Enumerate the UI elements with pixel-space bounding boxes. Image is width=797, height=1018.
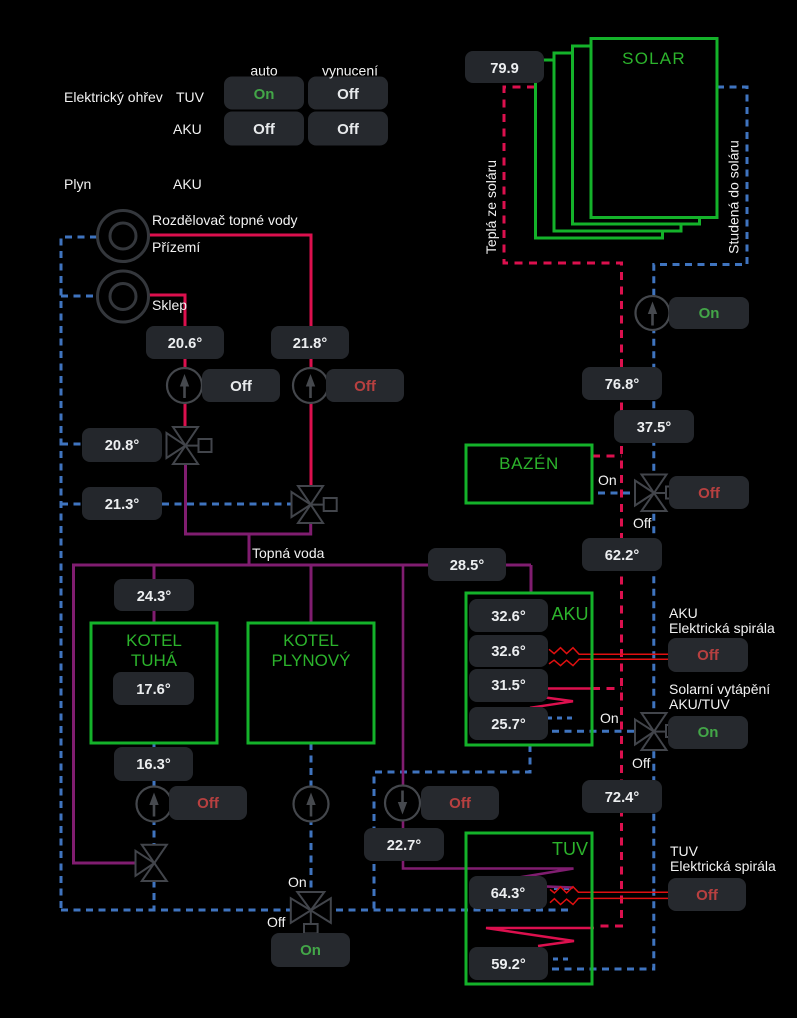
wire: red dashed bazen branch — [592, 455, 622, 458]
wire: crimson heating Sklep circuit — [147, 295, 185, 326]
svg-text:Off: Off — [697, 647, 720, 664]
wire: blue drop kotel tuha to bus — [153, 743, 156, 910]
svg-text:Off: Off — [267, 914, 286, 930]
svg-text:31.5°: 31.5° — [491, 678, 526, 694]
wire: blue dotted stub beside 64.3 sensor — [554, 887, 570, 890]
sensor box 64.3 — [469, 876, 547, 909]
wire: blue cold-return network left vertical — [61, 237, 97, 910]
svg-text:PLYNOVÝ: PLYNOVÝ — [271, 651, 350, 670]
button solar pump On — [669, 297, 749, 329]
wire: crimson heating Prizemi circuit — [147, 235, 311, 326]
wire: crimson 21.8 box to pump to valve V2 — [310, 359, 313, 486]
valve V5 (kotel tuha return) — [136, 845, 167, 881]
button solarni vytapeni On — [668, 716, 748, 749]
distributor circle Sklep — [98, 271, 149, 322]
valve V6 (boiler bypass on bus) — [291, 892, 331, 934]
svg-text:Rozdělovač topné vody: Rozdělovač topné vody — [152, 212, 298, 228]
sensor box 20.6 — [146, 326, 224, 359]
svg-text:On: On — [254, 86, 275, 103]
wire: blue branch to 20.8 sensor — [61, 443, 84, 446]
svg-text:On: On — [699, 305, 720, 322]
wire: crimson solar coil inside AKU tank — [480, 689, 592, 708]
svg-text:Off: Off — [698, 485, 721, 502]
sensor box 59.2 — [469, 947, 548, 980]
AKU tank box — [466, 593, 592, 745]
kotel tuha box — [91, 623, 217, 743]
svg-text:On: On — [600, 710, 619, 726]
svg-text:Plyn: Plyn — [64, 176, 91, 192]
wire: blue drop kotel plynovy to bus — [310, 743, 313, 905]
svg-text:37.5°: 37.5° — [637, 420, 672, 436]
sensor box 32.6 top — [469, 599, 548, 632]
wire: purple drop to kotel tuha — [153, 565, 156, 623]
svg-text:Teplá ze soláru: Teplá ze soláru — [483, 160, 499, 254]
svg-text:20.8°: 20.8° — [105, 438, 140, 454]
svg-text:Off: Off — [354, 378, 377, 395]
wire: blue branch to Sklep circle — [61, 295, 97, 298]
valve V2 (mixing, Prizemi) — [292, 486, 337, 523]
sensor box 24.3 — [114, 579, 194, 611]
svg-text:AKU: AKU — [173, 176, 202, 192]
sensor box 21.3 — [82, 487, 162, 520]
button kotel tuha pump Off — [169, 786, 247, 820]
sensor box 72.4 — [582, 780, 662, 813]
svg-text:76.8°: 76.8° — [605, 377, 640, 393]
bazen box — [466, 445, 592, 503]
sensor box 76.8 — [582, 367, 662, 400]
wire: purple drop 28.5 to AKU top — [530, 565, 533, 593]
svg-text:On: On — [300, 942, 321, 959]
wire: purple topna voda bus — [72, 564, 531, 567]
wire: blue AKU bottom return to bus — [374, 745, 530, 910]
svg-text:Studená do soláru: Studená do soláru — [726, 140, 742, 254]
svg-text:59.2°: 59.2° — [491, 957, 526, 973]
wire: blue dotted stub inside TUV tank — [553, 958, 573, 961]
wire: blue branch 21.3 to mixing valve V2 — [61, 503, 300, 506]
TUV tank box — [466, 833, 592, 984]
button pump P2 Off — [326, 369, 404, 402]
svg-text:TUV: TUV — [176, 89, 205, 105]
svg-text:Elektrická spirála: Elektrická spirála — [669, 620, 775, 636]
wire: purple riser to topna voda bus — [248, 534, 251, 565]
solar panel 4 (rearmost) — [536, 60, 663, 238]
svg-text:On: On — [598, 472, 617, 488]
svg-text:On: On — [698, 724, 719, 741]
pump P5 (kotel plynovy) — [294, 787, 329, 822]
wire: crimson 20.6 box to pump to valve V1 — [184, 359, 187, 427]
svg-text:Off: Off — [337, 86, 360, 103]
solar panel 1 (front, labelled SOLAR) — [591, 39, 717, 218]
valve V3 (bazen) — [635, 475, 678, 512]
button AKU auto Off — [224, 112, 304, 146]
svg-text:Off: Off — [197, 795, 220, 812]
sensor box 37.5 — [614, 410, 694, 443]
pump P3 (solar) — [636, 296, 670, 330]
svg-text:62.2°: 62.2° — [605, 548, 640, 564]
button bazen valve Off — [669, 476, 749, 509]
BOXES — [82, 51, 749, 980]
valve V4 (solarni AKU/TUV) — [635, 713, 678, 750]
svg-text:TUHÁ: TUHÁ — [131, 651, 178, 670]
wire: blue AKU to solar valve V4 — [552, 730, 648, 733]
svg-text:auto: auto — [250, 63, 277, 79]
svg-text:79.9: 79.9 — [490, 61, 519, 77]
resistor: TUV electric spiral wires — [550, 887, 668, 905]
svg-text:16.3°: 16.3° — [136, 757, 171, 773]
sensor box 28.5 — [428, 548, 506, 581]
svg-text:TUV: TUV — [670, 843, 699, 859]
sensor box 32.6 second — [469, 635, 548, 667]
svg-text:TUV: TUV — [552, 839, 588, 859]
sensor box 17.6 — [113, 672, 194, 705]
svg-text:64.3°: 64.3° — [491, 886, 526, 902]
pump P4 (kotel tuha) — [137, 787, 172, 822]
svg-text:Elektrická spirála: Elektrická spirála — [670, 858, 776, 874]
svg-text:28.5°: 28.5° — [450, 558, 485, 574]
sensor box 16.3 — [114, 747, 193, 781]
svg-text:21.3°: 21.3° — [105, 497, 140, 513]
valve V1 (mixing, Sklep) — [167, 427, 212, 464]
svg-text:On: On — [288, 874, 307, 890]
wire: blue solar cold line right side — [549, 87, 747, 969]
solar panel 3 — [554, 53, 681, 231]
svg-text:Solarní vytápění: Solarní vytápění — [669, 681, 770, 697]
kotel plynovy box — [248, 623, 374, 743]
button TUV spiral Off — [668, 878, 746, 911]
svg-text:72.4°: 72.4° — [605, 790, 640, 806]
wire: blue dotted stub inside AKU tank — [547, 717, 574, 720]
svg-text:Topná voda: Topná voda — [252, 545, 325, 561]
svg-text:Přízemí: Přízemí — [152, 239, 200, 255]
svg-text:vynucení: vynucení — [322, 63, 378, 79]
svg-text:21.8°: 21.8° — [293, 336, 328, 352]
svg-text:BAZÉN: BAZÉN — [499, 454, 559, 473]
svg-text:Off: Off — [253, 121, 276, 138]
button TUV charge pump Off — [421, 786, 499, 820]
svg-text:KOTEL: KOTEL — [283, 631, 339, 650]
wire: crimson solar coil inside TUV tank — [486, 928, 594, 946]
sensor box 22.7 — [364, 828, 444, 861]
wire: purple left branch down to valve V5 — [74, 565, 141, 863]
svg-text:AKU: AKU — [551, 604, 588, 624]
button AKU vynuceni Off — [308, 112, 388, 146]
svg-text:32.6°: 32.6° — [491, 609, 526, 625]
wire: purple branch through pump P6 to TUV coil — [403, 565, 574, 888]
solar panel 2 — [573, 46, 700, 224]
wire: blue bottom bus y910 — [61, 909, 570, 912]
svg-text:KOTEL: KOTEL — [126, 631, 182, 650]
svg-text:AKU: AKU — [173, 121, 202, 137]
svg-text:Off: Off — [633, 515, 652, 531]
sensor box 20.8 — [82, 428, 162, 462]
wire: purple drop to kotel plynovy — [310, 565, 313, 623]
button TUV auto On — [224, 77, 304, 110]
svg-text:17.6°: 17.6° — [136, 682, 171, 698]
pump P2 (Prizemi circuit) — [293, 368, 328, 403]
wire: red dashed solar hot supply — [504, 87, 622, 926]
wire: purple valve V1 down to mix header — [186, 464, 311, 534]
button bypass valve On — [271, 933, 350, 967]
svg-text:AKU/TUV: AKU/TUV — [669, 696, 730, 712]
button pump P1 Off — [202, 369, 280, 402]
svg-text:Elektrický ohřev: Elektrický ohřev — [64, 89, 163, 105]
wire: red dashed AKU coil branch — [592, 687, 622, 690]
svg-text:Off: Off — [230, 378, 253, 395]
sensor box 62.2 — [582, 538, 662, 571]
svg-text:Off: Off — [696, 887, 719, 904]
button AKU spiral Off — [668, 638, 748, 672]
svg-text:32.6°: 32.6° — [491, 644, 526, 660]
svg-text:22.7°: 22.7° — [387, 838, 422, 854]
sensor box 31.5 — [469, 669, 548, 702]
distributor circle Prizemi — [98, 211, 149, 262]
sensor box 21.8 — [271, 326, 349, 359]
svg-text:Off: Off — [337, 121, 360, 138]
pump P6 (TUV charge, down) — [385, 786, 420, 821]
svg-text:Sklep: Sklep — [152, 297, 187, 313]
svg-text:Off: Off — [449, 795, 472, 812]
svg-text:Off: Off — [632, 755, 651, 771]
wire: blue bazen valve horizontal — [598, 492, 653, 495]
sensor box 79.9 — [465, 51, 544, 83]
svg-text:AKU: AKU — [669, 605, 698, 621]
svg-text:24.3°: 24.3° — [137, 589, 172, 605]
pump P1 (Sklep circuit) — [167, 368, 202, 403]
sensor box 25.7 — [469, 707, 548, 740]
GREENBOXES — [91, 39, 717, 985]
button TUV vynuceni Off — [308, 77, 388, 110]
resistor: AKU electric spiral wires — [549, 648, 668, 666]
svg-text:SOLAR: SOLAR — [622, 49, 686, 68]
svg-text:20.6°: 20.6° — [168, 336, 203, 352]
svg-text:25.7°: 25.7° — [491, 717, 526, 733]
